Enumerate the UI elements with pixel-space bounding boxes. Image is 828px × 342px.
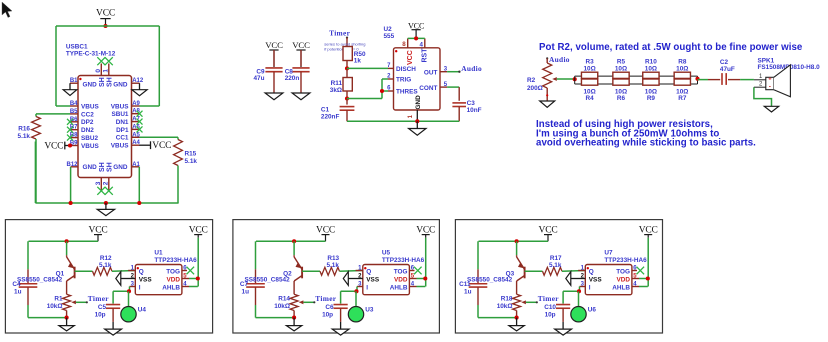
svg-text:avoid overheating while sticki: avoid overheating while sticking to basi… (536, 138, 756, 149)
svg-text:VCC: VCC (292, 40, 310, 50)
svg-text:THRES: THRES (396, 88, 418, 95)
svg-text:VBUS: VBUS (81, 143, 99, 150)
svg-text:B4: B4 (70, 101, 78, 107)
svg-text:R12: R12 (100, 255, 112, 262)
svg-text:VBUS: VBUS (81, 103, 99, 110)
svg-text:-: - (769, 83, 771, 90)
svg-text:10Ω: 10Ω (676, 65, 688, 72)
svg-text:GND: GND (83, 164, 98, 171)
svg-text:Q: Q (366, 268, 371, 275)
svg-text:DISCH: DISCH (396, 66, 416, 73)
svg-text:R9: R9 (647, 95, 656, 102)
svg-text:C10: C10 (544, 304, 556, 311)
svg-text:1u: 1u (242, 288, 250, 295)
svg-text:SS8550_C8542: SS8550_C8542 (467, 276, 513, 283)
svg-text:Q: Q (139, 268, 144, 275)
svg-text:VCC: VCC (89, 226, 108, 236)
svg-text:2: 2 (103, 181, 110, 185)
svg-text:SBU2: SBU2 (81, 135, 98, 142)
svg-text:U5: U5 (382, 250, 391, 257)
svg-text:A9: A9 (132, 101, 140, 107)
svg-text:10p: 10p (545, 311, 556, 318)
svg-text:220n: 220n (285, 75, 300, 82)
svg-text:VCC: VCC (44, 141, 63, 151)
svg-text:5.1k: 5.1k (326, 262, 339, 269)
svg-text:R1: R1 (54, 295, 63, 302)
svg-text:10Ω: 10Ω (583, 65, 595, 72)
svg-text:VCC: VCC (265, 40, 283, 50)
svg-text:GND: GND (415, 95, 422, 110)
svg-text:DN2: DN2 (81, 127, 94, 134)
svg-text:VCC: VCC (407, 50, 414, 65)
svg-text:R11: R11 (331, 80, 343, 87)
svg-text:CONT: CONT (419, 85, 437, 92)
svg-text:R6: R6 (617, 95, 626, 102)
svg-text:B5: B5 (70, 109, 78, 115)
svg-text:U7: U7 (604, 250, 613, 257)
svg-text:B8: B8 (70, 133, 78, 139)
svg-text:A12: A12 (132, 78, 144, 84)
svg-text:R14: R14 (278, 295, 290, 302)
svg-text:DN1: DN1 (116, 119, 129, 126)
svg-text:VCC: VCC (152, 141, 171, 151)
svg-text:Pot R2, volume, rated at .5W o: Pot R2, volume, rated at .5W ought to be… (539, 42, 803, 53)
svg-text:OUT: OUT (424, 69, 438, 76)
svg-text:Audio: Audio (461, 64, 482, 73)
svg-text:5.1k: 5.1k (185, 158, 198, 165)
svg-text:1u: 1u (464, 288, 472, 295)
svg-text:R2: R2 (527, 77, 536, 84)
svg-text:TOG: TOG (166, 268, 180, 275)
svg-text:TOG: TOG (616, 268, 630, 275)
svg-text:VCC: VCC (96, 9, 115, 19)
svg-text:Timer: Timer (88, 294, 109, 303)
svg-text:C6: C6 (325, 304, 334, 311)
svg-text:1u: 1u (14, 288, 22, 295)
svg-text:U4: U4 (138, 307, 147, 314)
svg-text:1k: 1k (354, 58, 362, 65)
svg-text:RST: RST (422, 48, 429, 63)
svg-text:VCC: VCC (416, 226, 435, 236)
svg-text:10kΩ: 10kΩ (497, 303, 513, 310)
svg-text:47u: 47u (253, 75, 264, 82)
svg-text:GND: GND (113, 82, 128, 89)
svg-text:C3: C3 (467, 100, 476, 107)
svg-text:10kΩ: 10kΩ (47, 303, 63, 310)
svg-text:VDD: VDD (617, 276, 631, 283)
svg-text:Timer: Timer (538, 294, 559, 303)
svg-text:B12: B12 (66, 162, 78, 168)
svg-text:TTP233H-HA6: TTP233H-HA6 (604, 257, 647, 264)
svg-text:8: 8 (402, 41, 406, 48)
svg-text:GND: GND (83, 82, 98, 89)
svg-text:U3: U3 (365, 307, 374, 314)
svg-text:I: I (366, 284, 368, 291)
svg-text:5.1k: 5.1k (18, 133, 31, 140)
svg-text:VBUS: VBUS (111, 103, 129, 110)
svg-text:B1: B1 (70, 78, 78, 84)
svg-text:VSS: VSS (139, 276, 153, 283)
svg-text:TTP233H-HA6: TTP233H-HA6 (154, 257, 197, 264)
svg-text:R18: R18 (501, 295, 513, 302)
svg-text:VDD: VDD (394, 276, 408, 283)
svg-text:AHLB: AHLB (390, 284, 408, 291)
svg-text:10p: 10p (322, 311, 333, 318)
svg-text:220nF: 220nF (321, 113, 340, 120)
svg-text:0: 0 (95, 69, 102, 73)
svg-text:SS8550_C8542: SS8550_C8542 (245, 276, 291, 283)
svg-text:R4: R4 (586, 95, 595, 102)
svg-text:AHLB: AHLB (162, 284, 180, 291)
svg-text:3: 3 (95, 181, 102, 185)
svg-text:I: I (589, 284, 591, 291)
svg-text:SH: SH (107, 77, 114, 87)
svg-text:TTP233H-HA6: TTP233H-HA6 (382, 257, 425, 264)
svg-text:SH: SH (107, 162, 114, 172)
svg-text:VCC: VCC (639, 226, 658, 236)
svg-text:5.1k: 5.1k (549, 262, 562, 269)
svg-text:B7: B7 (70, 125, 78, 131)
svg-text:10kΩ: 10kΩ (274, 303, 290, 310)
svg-text:B6: B6 (70, 117, 78, 123)
svg-text:SH: SH (99, 77, 106, 87)
svg-text:I: I (139, 284, 141, 291)
svg-text:A4: A4 (132, 140, 140, 146)
svg-text:+: + (768, 77, 772, 83)
svg-text:Timer: Timer (315, 294, 336, 303)
svg-text:U1: U1 (154, 250, 163, 257)
svg-text:10nF: 10nF (467, 107, 482, 114)
svg-text:3kΩ: 3kΩ (330, 87, 342, 94)
svg-text:SS8550_C8542: SS8550_C8542 (17, 276, 63, 283)
svg-text:R13: R13 (327, 255, 339, 262)
svg-text:10p: 10p (95, 311, 106, 318)
svg-text:TOG: TOG (394, 268, 408, 275)
svg-text:U2: U2 (384, 26, 393, 33)
svg-text:TYPE-C-31-M-12: TYPE-C-31-M-12 (66, 50, 116, 57)
svg-text:VCC: VCC (316, 226, 335, 236)
svg-text:SBU1: SBU1 (111, 111, 128, 118)
svg-text:47uF: 47uF (720, 66, 735, 73)
svg-text:DP2: DP2 (81, 119, 94, 126)
svg-text:4: 4 (420, 41, 424, 48)
svg-text:VDD: VDD (167, 276, 181, 283)
svg-text:VCC: VCC (408, 22, 425, 31)
svg-text:U6: U6 (588, 307, 597, 314)
svg-text:R15: R15 (185, 151, 197, 158)
svg-text:GND: GND (113, 164, 128, 171)
svg-text:Q: Q (589, 268, 594, 275)
svg-text:10Ω: 10Ω (615, 65, 627, 72)
svg-text:R16: R16 (18, 126, 30, 133)
svg-text:VSS: VSS (589, 276, 603, 283)
svg-text:DP1: DP1 (116, 127, 129, 134)
svg-text:1: 1 (103, 69, 110, 73)
svg-text:SH: SH (99, 162, 106, 172)
svg-text:CC2: CC2 (81, 111, 94, 118)
svg-text:10Ω: 10Ω (645, 65, 657, 72)
svg-text:Timer: Timer (329, 29, 350, 38)
svg-text:555: 555 (384, 33, 395, 40)
svg-text:CC1: CC1 (116, 135, 129, 142)
svg-text:5.1k: 5.1k (99, 262, 112, 269)
svg-text:200Ω: 200Ω (527, 85, 543, 92)
svg-text:C5: C5 (98, 304, 107, 311)
svg-text:TRIG: TRIG (396, 76, 411, 83)
svg-text:Audio: Audio (549, 55, 570, 64)
svg-text:VCC: VCC (539, 226, 558, 236)
svg-text:VBUS: VBUS (111, 143, 129, 150)
svg-text:AHLB: AHLB (612, 284, 630, 291)
svg-text:A5: A5 (132, 132, 140, 138)
svg-text:R17: R17 (550, 255, 562, 262)
svg-text:R7: R7 (678, 95, 687, 102)
svg-text:VSS: VSS (366, 276, 380, 283)
svg-text:VCC: VCC (189, 226, 208, 236)
